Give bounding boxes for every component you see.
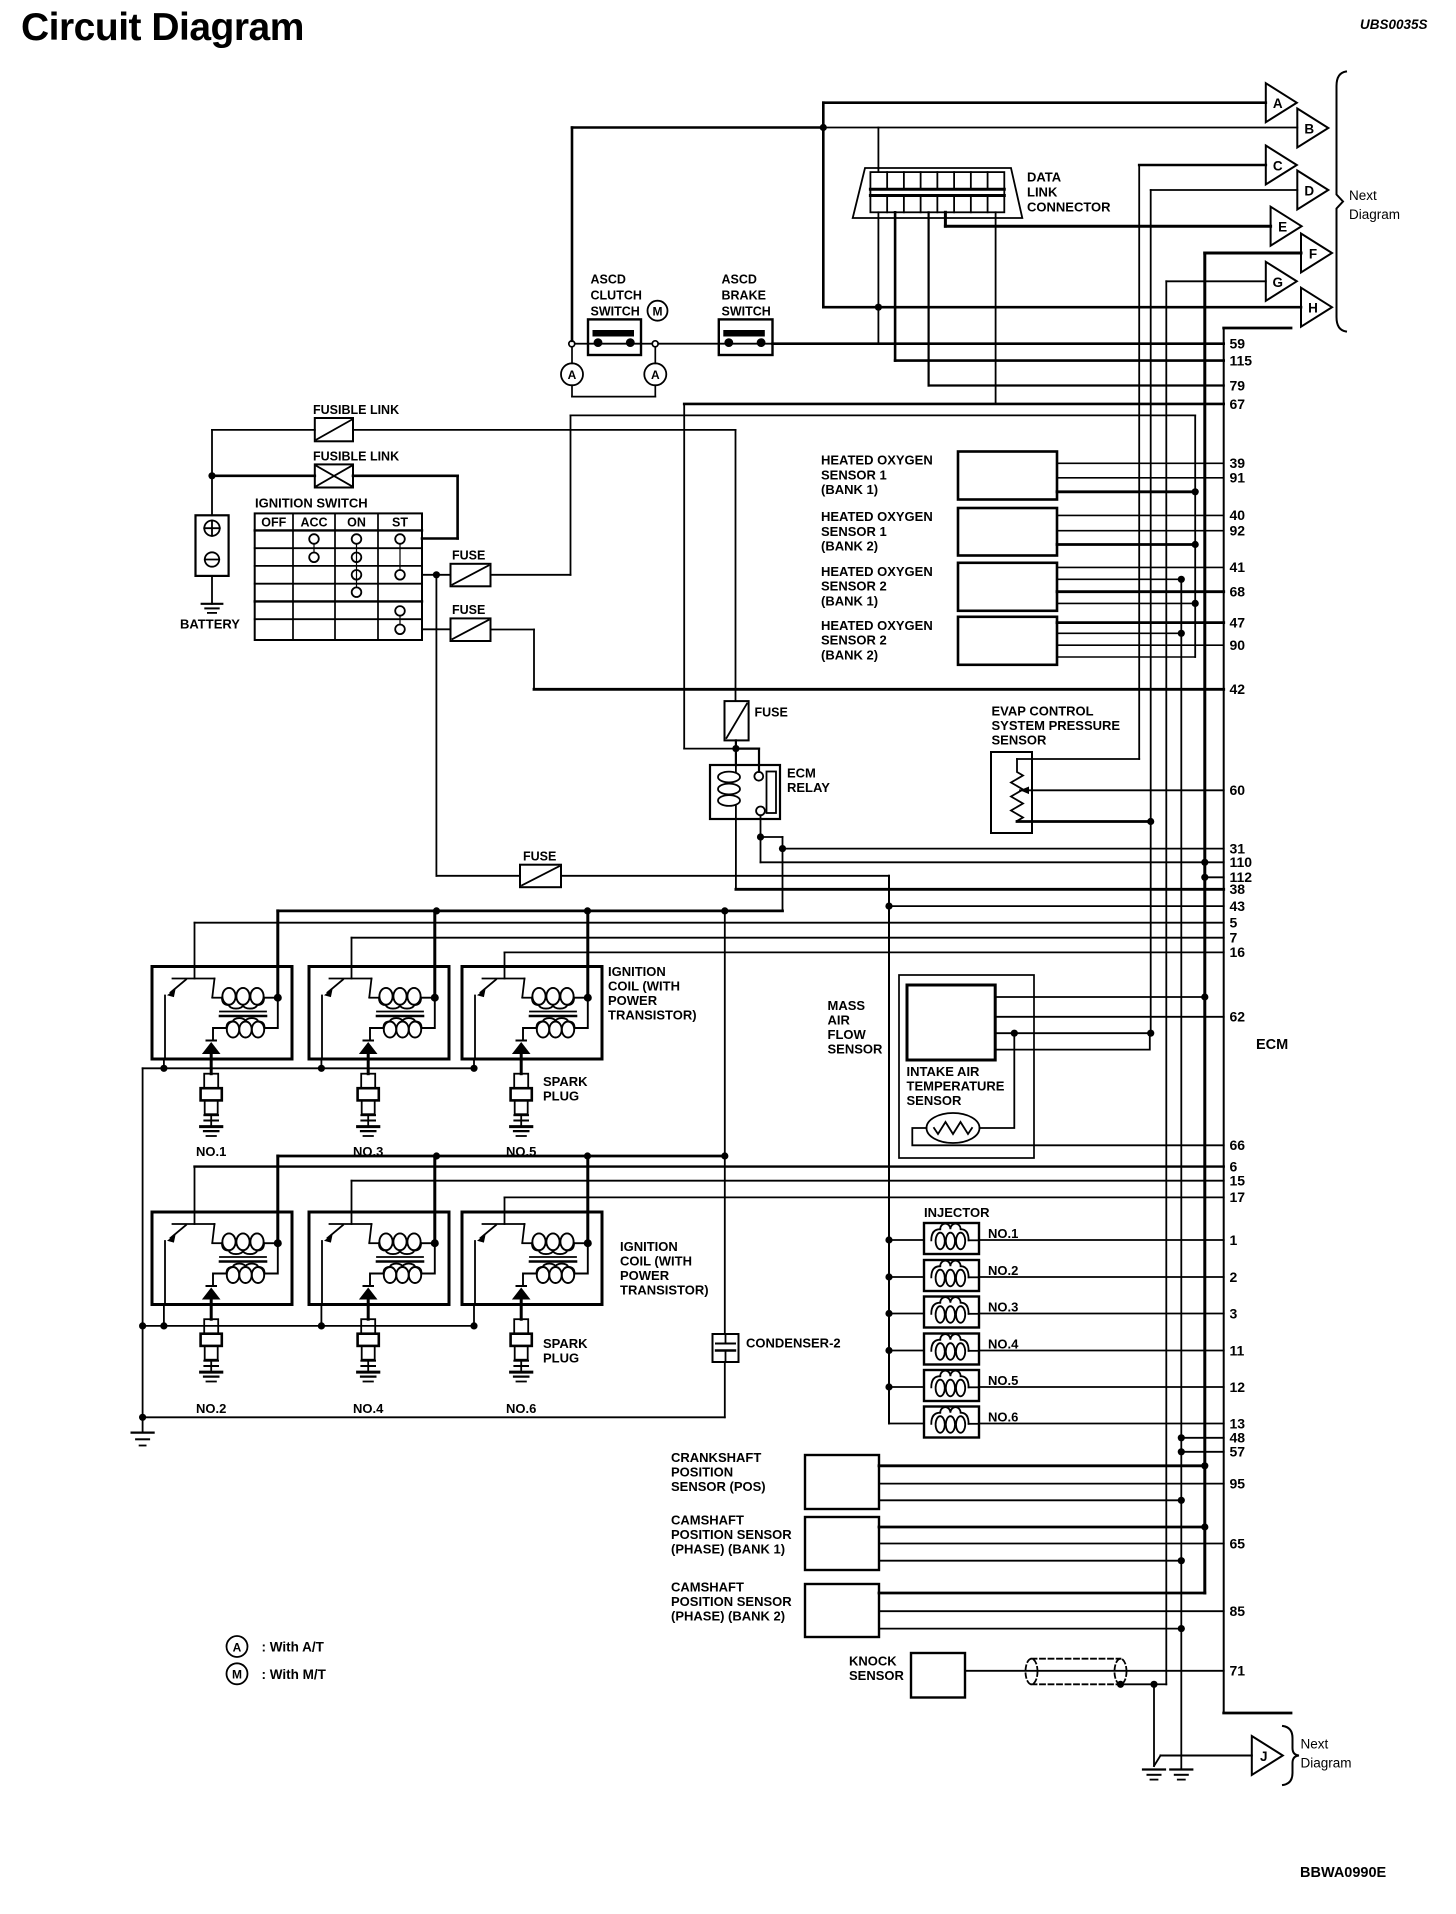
svg-text:AIR: AIR [828,1013,851,1028]
svg-text:67: 67 [1230,396,1246,412]
svg-text:SENSOR: SENSOR [828,1042,884,1057]
svg-text:43: 43 [1230,898,1246,914]
svg-text:OFF: OFF [261,516,286,530]
svg-text:IGNITION: IGNITION [620,1239,678,1254]
svg-text:ST: ST [392,516,408,530]
triangle B to next diagram [1297,109,1328,148]
svg-text:A: A [233,1640,242,1654]
injector NO.3 [924,1297,1018,1328]
svg-text:(PHASE) (BANK 2): (PHASE) (BANK 2) [671,1609,785,1624]
label injector [924,1205,990,1220]
svg-text:: With M/T: : With M/T [262,1667,327,1682]
wire condenser vertical [143,911,725,1417]
svg-text:COIL (WITH: COIL (WITH [620,1254,692,1269]
svg-text:INTAKE AIR: INTAKE AIR [907,1064,981,1079]
wire ignition ON to fuse F3 [436,575,520,876]
doc code BBWA0990E [1300,1865,1387,1881]
wire cam2 sensor to ECM pin 85 [879,1603,1245,1619]
wire fuse F4 output junction [732,740,759,771]
wire ignition ON to fuse F1 [422,571,451,578]
EVAP control system pressure sensor [991,704,1120,834]
svg-text:(PHASE) (BANK 1): (PHASE) (BANK 1) [671,1542,785,1557]
wire FL1 output to FUSE4 [353,430,736,701]
svg-text:Diagram: Diagram [1301,1756,1352,1771]
wire fuse F3 to injector bus [561,876,893,1424]
svg-text:D: D [1304,184,1314,199]
wire fuse F2 to ECM pin 42 [491,630,1246,698]
triangle G to next diagram [1266,262,1297,301]
wire to triangle J [1154,1756,1252,1767]
svg-text:SENSOR: SENSOR [992,733,1048,748]
fusible link FL2 [313,449,399,487]
ignition coil Q2 (with power transistor) [309,911,449,1059]
wire FL1 feed [212,429,315,431]
wire sensor ground bus 1181 [1178,576,1185,1770]
wire relay coil to ECM pin 38 [736,819,1245,897]
svg-text:SYSTEM PRESSURE: SYSTEM PRESSURE [992,718,1121,733]
svg-text:41: 41 [1230,559,1246,575]
svg-text:HEATED OXYGEN: HEATED OXYGEN [821,453,933,468]
wire bus C vertical to EVAP [1032,165,1266,759]
svg-text:SENSOR 2: SENSOR 2 [821,579,887,594]
svg-text:NO.1: NO.1 [988,1226,1018,1241]
triangle C to next diagram [1266,146,1297,185]
wire DLC pin1 down [877,212,879,307]
wire DLC pin5 to triangle E [945,212,1270,226]
svg-text:SWITCH: SWITCH [591,305,640,319]
svg-text:NO.5: NO.5 [988,1373,1018,1388]
wire to triangle B [820,124,1298,131]
fuse F1 [451,549,491,587]
wire ECM pin 112 stub [1205,869,1252,885]
svg-text:FUSE: FUSE [452,549,485,563]
svg-text:DATA: DATA [1027,170,1062,185]
svg-text:FUSE: FUSE [452,603,485,617]
heated oxygen sensor 4 [821,617,1057,665]
svg-text:TEMPERATURE: TEMPERATURE [907,1079,1005,1094]
wire IAT to ECM pin 66 [912,1128,1245,1153]
camshaft position sensor (PHASE) (BANK 1) [671,1513,879,1571]
spark plug NO.1 [196,1059,226,1159]
wire coil emitter ground line bottom [139,1305,478,1330]
svg-text:47: 47 [1230,614,1246,630]
svg-text:90: 90 [1230,637,1246,653]
wire cam2 sensor ground [879,1628,1181,1630]
spark plug NO.4 [353,1305,384,1417]
svg-text:ECM: ECM [787,766,816,781]
spark plug NO.3 [353,1059,383,1159]
heated oxygen sensor 1 [821,452,1057,500]
wire ECM pin 43 [889,898,1245,914]
svg-text:ON: ON [347,516,366,530]
fuse F4 [725,701,788,740]
svg-text:(BANK 2): (BANK 2) [821,539,878,554]
wire ECM relay net to ECM pin 67 [684,396,1245,749]
wire coil emitter ground line top [143,1059,478,1072]
ground shield [1143,1770,1165,1780]
svg-text:ASCD: ASCD [722,273,757,287]
wire ECM pin 17 to coil Q6 [505,1189,1246,1212]
mass air flow sensor outer box [828,975,1035,1158]
injector NO.2 [924,1260,1018,1291]
wire MAF to ECM pin 62 [995,1009,1245,1025]
heated oxygen sensor 2 [821,508,1057,556]
svg-text:POWER: POWER [620,1268,670,1283]
triangle A to next diagram [1266,83,1297,122]
wire ECM pin 16 to coil Q3 [505,944,1246,966]
triangle F to next diagram [1301,234,1332,273]
triangle E to next diagram [1271,207,1302,246]
intake air temperature sensor [907,1064,1005,1143]
wire relay contact to ECM pin 110 [761,837,1253,870]
wire injector NO.4 feed [885,1347,924,1354]
wire injector NO.4 to ECM pin [979,1342,1245,1358]
svg-text:IGNITION: IGNITION [608,964,666,979]
svg-text:NO.1: NO.1 [196,1144,226,1159]
wire EVAP ground to bus D [1017,820,1151,823]
ignition switch table [255,496,422,641]
svg-text:7: 7 [1230,930,1238,946]
wire relay contact to ECM pin 31 [757,815,1245,856]
svg-text:91: 91 [1230,470,1246,486]
brace next diagram bottom [1283,1726,1352,1785]
wire IAT to MAF ground [980,1033,1015,1128]
spark plug NO.5 [506,1059,536,1159]
wire HO2S4 sensor wire [1057,656,1195,658]
svg-text:SPARK: SPARK [543,1336,588,1351]
svg-text:65: 65 [1230,1535,1246,1551]
MAF sensor inner box [907,985,995,1060]
svg-text:SWITCH: SWITCH [722,305,771,319]
svg-text:(BANK 1): (BANK 1) [821,593,878,608]
wire cam1 sensor ground [879,1560,1181,1562]
ASCD brake switch [719,273,773,356]
svg-text:LINK: LINK [1027,185,1058,200]
svg-text:92: 92 [1230,523,1246,539]
svg-text:C: C [1273,159,1283,174]
svg-text:A: A [1273,96,1283,111]
svg-text:NO.4: NO.4 [353,1401,384,1416]
wire HO2S3 to ECM pin 68 [1057,584,1245,600]
wire injector NO.6 feed [889,1423,924,1425]
ground bus 1181 symbol [1170,1770,1192,1780]
wire AT bypass [572,385,655,396]
fuse F3 [520,850,561,888]
wire to triangle H / ECM pin 59 drop [823,304,1301,344]
node ASCD clutch right [652,341,658,347]
wire ECM pin 57 [1181,1444,1245,1460]
svg-text:Diagram: Diagram [1349,207,1400,222]
wire EVAP signal to ECM pin 60 [1020,782,1245,798]
wire battery to fusible links [208,430,215,515]
svg-text:85: 85 [1230,1603,1246,1619]
triangle D to next diagram [1297,171,1328,210]
wire ECM pin 15 to coil Q5 [352,1173,1246,1213]
svg-text:68: 68 [1230,584,1246,600]
svg-text:115: 115 [1230,353,1253,369]
circle A bypass left [561,347,583,386]
node ASCD clutch left [569,341,575,347]
svg-text:FUSE: FUSE [523,850,556,864]
svg-text:POSITION SENSOR: POSITION SENSOR [671,1527,792,1542]
wire MAF to bus F [995,996,1205,998]
ECM relay [710,765,830,819]
svg-text:5: 5 [1230,915,1238,931]
wire cam1 sensor to ECM pin 65 [879,1535,1245,1551]
wire injector NO.5 feed [885,1383,924,1390]
svg-text:CONDENSER-2: CONDENSER-2 [746,1336,841,1351]
wire crank sensor supply [879,1464,1205,1467]
wire EVAP supply from bus C [1017,758,1032,760]
wire cam2 sensor supply [879,1592,1205,1595]
wire HO2S4 to ECM pin 90 [1057,637,1245,653]
circle M with MT [648,301,668,321]
svg-text:POSITION: POSITION [671,1465,733,1480]
wire knock sensor to ECM pin 71 [965,1663,1245,1679]
ignition coil Q5 (with power transistor) [309,1156,449,1305]
svg-text:INJECTOR: INJECTOR [924,1205,990,1220]
wire crank sensor to ECM pin 95 [879,1475,1245,1491]
wire ECM pin 7 to coil Q2 [352,930,1238,967]
wire DLC pin up to triangle B net [877,128,879,173]
wire injector NO.6 to ECM pin [979,1415,1245,1431]
heated oxygen sensor 3 [821,563,1057,611]
label ignition coil bottom [620,1239,709,1298]
injector NO.4 [924,1334,1019,1365]
wire DLC pin2 to ECM pin 115 [895,212,1252,368]
svg-text:SENSOR 1: SENSOR 1 [821,467,887,482]
svg-text:(BANK 1): (BANK 1) [821,482,878,497]
wire FL2 to ignition switch [212,476,458,539]
svg-text:NO.4: NO.4 [988,1337,1019,1352]
wire left ground drop [139,1068,146,1432]
wire HO2S1 sensor wire [1057,490,1195,493]
svg-text:NO.6: NO.6 [988,1410,1018,1425]
ECM box [1224,328,1291,1713]
wire injector NO.2 to ECM pin [979,1269,1238,1285]
ground coils [132,1433,154,1446]
wire HO2S2 sensor wire [1057,543,1195,546]
svg-text:42: 42 [1230,681,1246,697]
wire MAF ground to bus D [995,1030,1150,1037]
svg-text:Circuit Diagram: Circuit Diagram [21,6,304,49]
svg-text:16: 16 [1230,944,1246,960]
wire bus D vertical [1147,190,1297,1037]
svg-text:40: 40 [1230,507,1246,523]
wire HO2S2 to ECM pin 92 [1057,523,1245,539]
wire HO2S1 to ECM pin 39 [1057,455,1245,471]
wire heater bus 1195 [1192,415,1199,657]
triangle H to next diagram [1301,288,1332,327]
svg-text:HEATED OXYGEN: HEATED OXYGEN [821,509,933,524]
svg-text:A: A [651,368,660,382]
svg-text:BBWA0990E: BBWA0990E [1300,1865,1387,1881]
svg-text:KNOCK: KNOCK [849,1654,897,1669]
crankshaft position sensor (POS) [671,1450,879,1509]
svg-text:SENSOR 2: SENSOR 2 [821,633,887,648]
svg-text:B: B [1304,122,1314,137]
svg-text:ECM: ECM [1256,1037,1288,1053]
svg-text:MASS: MASS [828,998,866,1013]
svg-text:M: M [653,305,663,319]
injector NO.5 [924,1370,1018,1401]
wire HO2S1 to ECM pin 91 [1057,470,1245,486]
svg-text:TRANSISTOR): TRANSISTOR) [620,1283,709,1298]
injector NO.6 [924,1407,1018,1438]
svg-text:71: 71 [1230,1663,1246,1679]
wire fuse F1 to HO2S heater bus [491,415,1196,574]
svg-text:UBS0035S: UBS0035S [1360,17,1428,32]
svg-text:(BANK 2): (BANK 2) [821,647,878,662]
data link connector [853,168,1111,218]
spark plug NO.6 [506,1305,536,1417]
svg-text:ASCD: ASCD [591,273,626,287]
wire DLC pin4 to ECM pin 79 [929,212,1246,393]
svg-text:11: 11 [1230,1342,1245,1358]
svg-text:SPARK: SPARK [543,1074,588,1089]
svg-text:NO.2: NO.2 [196,1401,226,1416]
svg-text:1: 1 [1230,1232,1238,1248]
wire ECM pin 59 [773,336,1246,352]
svg-text:NO.6: NO.6 [506,1401,536,1416]
doc code UBS0035S [1360,17,1428,32]
svg-text:HEATED OXYGEN: HEATED OXYGEN [821,618,933,633]
wire clutch to brake switch [575,343,719,345]
wire cam1 sensor supply [879,1526,1205,1529]
svg-text:59: 59 [1230,336,1246,352]
knock sensor [849,1653,965,1698]
svg-text:Next: Next [1349,188,1377,203]
ignition coil Q1 (with power transistor) [152,911,292,1059]
svg-text:PLUG: PLUG [543,1089,579,1104]
legend with AT [227,1636,325,1657]
svg-text:FUSIBLE LINK: FUSIBLE LINK [313,403,399,417]
svg-text:60: 60 [1230,782,1246,798]
fuse F2 [451,603,491,641]
svg-text:SENSOR: SENSOR [849,1668,905,1683]
wire HO2S3 sensor wire [1057,578,1181,580]
wire injector NO.2 feed [885,1273,924,1280]
ignition coil Q4 (with power transistor) [152,1156,292,1305]
svg-text:2: 2 [1230,1269,1238,1285]
svg-text:SENSOR 1: SENSOR 1 [821,524,887,539]
svg-text:M: M [232,1668,242,1682]
wire ignition ST to fuse F2 [422,628,451,630]
wire injector NO.3 to ECM pin [979,1305,1238,1321]
svg-text:A: A [568,368,577,382]
spark plug NO.2 [196,1305,226,1417]
svg-text:BRAKE: BRAKE [722,289,766,303]
fusible link FL1 [313,403,399,441]
wire MAF shield [995,1034,1150,1050]
svg-text:3: 3 [1230,1305,1238,1321]
label ignition coil top [608,964,697,1023]
wire DLC pin8 to ECM pin 67 line [995,212,997,404]
svg-text:CRANKSHAFT: CRANKSHAFT [671,1450,761,1465]
svg-text:POWER: POWER [608,993,658,1008]
wire bus F vertical [1201,253,1301,1593]
wire coil supply line bottom [278,1152,729,1159]
knock sensor cable shield [1026,1659,1127,1685]
svg-text:66: 66 [1230,1137,1246,1153]
ground battery [202,576,223,613]
svg-text:12: 12 [1230,1379,1246,1395]
ignition coil Q6 (with power transistor) [462,1156,602,1305]
wire ECM pin 6 to coil Q4 [195,1158,1238,1212]
wire injector NO.3 feed [885,1310,924,1317]
svg-text:PLUG: PLUG [543,1351,579,1366]
wire shield drain [1117,1681,1158,1766]
svg-text:NO.3: NO.3 [988,1300,1018,1315]
ignition coil Q3 (with power transistor) [462,911,602,1059]
wire bus G vertical to knock shield [1154,281,1266,1684]
label spark plug top [543,1074,588,1104]
svg-text:TRANSISTOR): TRANSISTOR) [608,1008,697,1023]
svg-text:: With A/T: : With A/T [262,1640,325,1655]
wire to triangle A [823,103,1266,308]
wire ECM pin 48 [1181,1430,1245,1446]
camshaft position sensor (PHASE) (BANK 2) [671,1580,879,1638]
wire injector NO.5 to ECM pin [979,1379,1245,1395]
wire ASCD clutch node to triangle bus [572,128,823,341]
svg-text:110: 110 [1230,854,1253,870]
svg-text:H: H [1308,301,1318,316]
wire HO2S3 to ECM pin 41 [1057,559,1245,575]
injector NO.1 [924,1223,1018,1254]
wire HO2S2 to ECM pin 40 [1057,507,1245,523]
svg-text:FUSIBLE LINK: FUSIBLE LINK [313,449,399,463]
svg-text:38: 38 [1230,881,1246,897]
svg-text:F: F [1309,247,1317,262]
wire HO2S4 to ECM pin 47 [1057,614,1245,630]
svg-text:HEATED OXYGEN: HEATED OXYGEN [821,564,933,579]
svg-text:EVAP CONTROL: EVAP CONTROL [992,704,1094,719]
wire relay output to coil supply [278,849,783,915]
legend with MT [227,1663,327,1684]
svg-text:POSITION SENSOR: POSITION SENSOR [671,1594,792,1609]
svg-text:FLOW: FLOW [828,1027,867,1042]
svg-text:57: 57 [1230,1444,1246,1460]
svg-text:G: G [1273,275,1284,290]
svg-text:CAMSHAFT: CAMSHAFT [671,1580,744,1595]
svg-text:95: 95 [1230,1475,1246,1491]
wire injector NO.1 to ECM pin [979,1232,1238,1248]
bracket next diagram [1337,72,1401,332]
ASCD clutch switch [588,273,642,356]
svg-text:SENSOR: SENSOR [907,1093,963,1108]
svg-text:J: J [1260,1749,1268,1764]
svg-text:SENSOR (POS): SENSOR (POS) [671,1479,766,1494]
svg-text:NO.2: NO.2 [988,1263,1018,1278]
svg-text:BATTERY: BATTERY [180,617,240,632]
wire HO2S4 sensor wire [1057,632,1181,634]
title text [21,6,304,49]
label spark plug bottom [543,1336,588,1366]
wire injector NO.1 feed [885,1236,924,1243]
circle A bypass right [644,347,666,386]
svg-text:IGNITION SWITCH: IGNITION SWITCH [255,496,368,511]
svg-text:CAMSHAFT: CAMSHAFT [671,1513,744,1528]
svg-text:FUSE: FUSE [755,706,788,720]
wire ECM pin 5 to coil Q1 [195,915,1238,967]
svg-text:COIL (WITH: COIL (WITH [608,979,680,994]
battery [180,515,240,631]
svg-text:CONNECTOR: CONNECTOR [1027,200,1111,215]
triangle J to next diagram [1252,1736,1283,1775]
svg-text:E: E [1278,220,1287,235]
svg-text:62: 62 [1230,1009,1246,1025]
svg-text:RELAY: RELAY [787,780,830,795]
